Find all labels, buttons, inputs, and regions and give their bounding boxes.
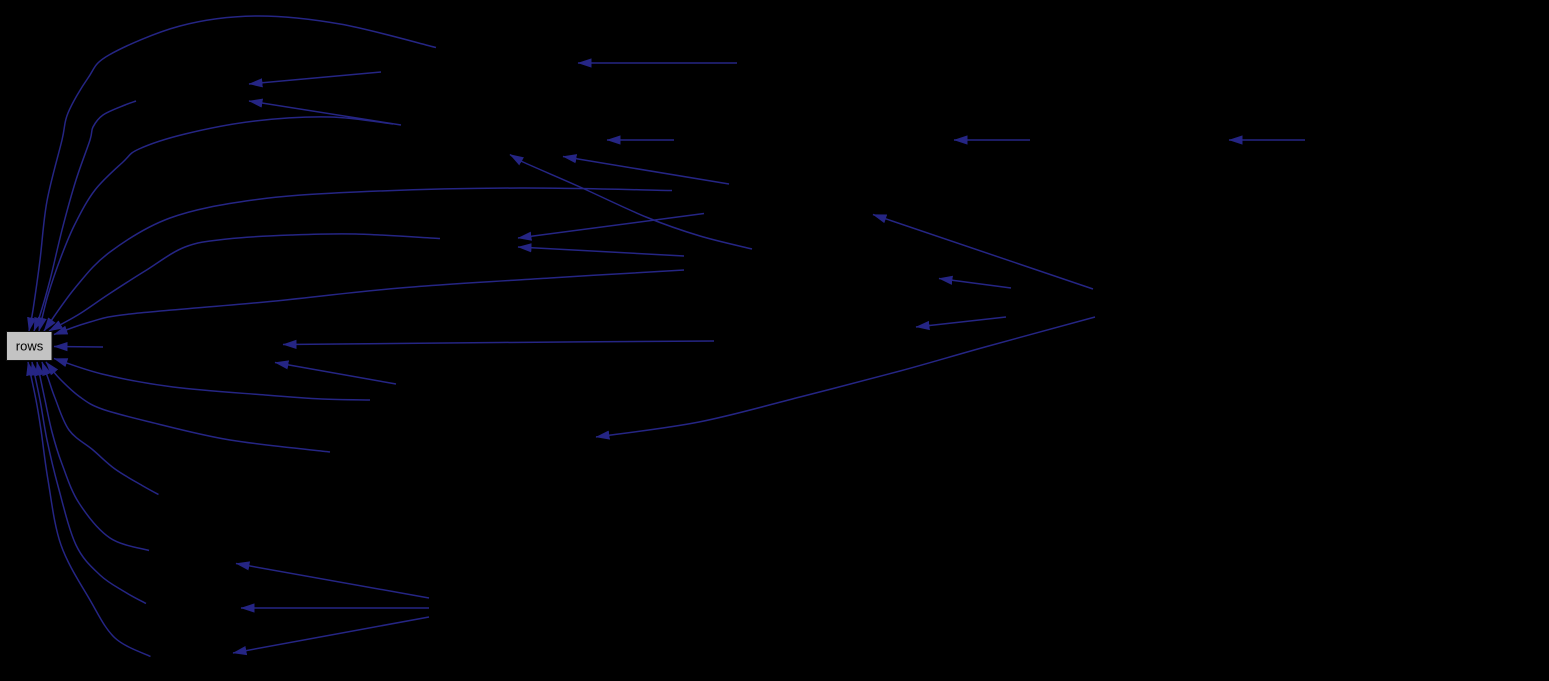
edge into rows bottom from hidden node at (149,550) — [37, 362, 149, 551]
arrow from right hub up-left into tip (873,214) — [873, 215, 1093, 290]
node rows (highlighted current node) — [7, 332, 53, 361]
edge into rows from hidden node at (136,101) — [34, 101, 136, 331]
edge into rows right-bottom corner from hidden node at (370,400) — [54, 359, 370, 401]
arrow into hidden node tip (249,84) — [249, 72, 381, 84]
curved arrow from right hub down-left into tip (596,437) — [596, 317, 1095, 437]
arrow into hidden node tip (518,247) — [518, 247, 684, 256]
arrow far-right into tip (1229,140) — [1229, 139, 1305, 141]
edge into rows: outer top arc from hidden node at (436,48) — [29, 16, 436, 331]
arrow from bottom hub into tip (233,653) — [233, 617, 429, 653]
edge into rows from hidden node at (672,190) — [44, 188, 672, 331]
arrow from bottom hub, horizontal into tip (241,608) — [241, 607, 429, 609]
edge into rows bottom from hidden node at (158,494) — [42, 362, 159, 495]
edge into rows from hidden node at (393,124) — [39, 117, 393, 331]
curved crossing arrow into tip (510,154) — [510, 155, 752, 250]
arrow between hidden nodes, horizontal at y=63 — [578, 62, 737, 64]
edge into rows right side, short horizontal — [54, 346, 103, 349]
arrow upper-right into tip (954,140) — [954, 139, 1030, 141]
edge into rows right-top corner from hidden node at (684,270) — [54, 270, 684, 335]
short arrow into tip (939,278) — [939, 279, 1011, 289]
edge into rows from hidden node at (440,238) — [49, 234, 440, 331]
arrow into hidden node tip (518,238) — [518, 214, 704, 239]
arrow between hidden nodes, short horizontal at y=140 — [607, 139, 674, 141]
edge into rows bottom from hidden node at (146,603) — [32, 362, 146, 604]
edge into rows bottom outer from hidden node at (150,656) — [28, 362, 151, 657]
arrow into hidden node tip (275,362) — [275, 363, 396, 385]
arrow between hidden nodes into tip (563,156) — [563, 157, 729, 185]
short arrow into tip (916,327) — [916, 317, 1006, 327]
arrow from bottom hub into tip (236,563) — [236, 564, 429, 599]
long horizontal arrow at y=344 into tip (283,344) — [283, 341, 714, 345]
edge into rows bottom from hidden node at (330,452) — [46, 362, 330, 452]
svg-text:rows: rows — [16, 339, 44, 354]
arrow into hidden node tip (249,101) — [249, 101, 401, 125]
